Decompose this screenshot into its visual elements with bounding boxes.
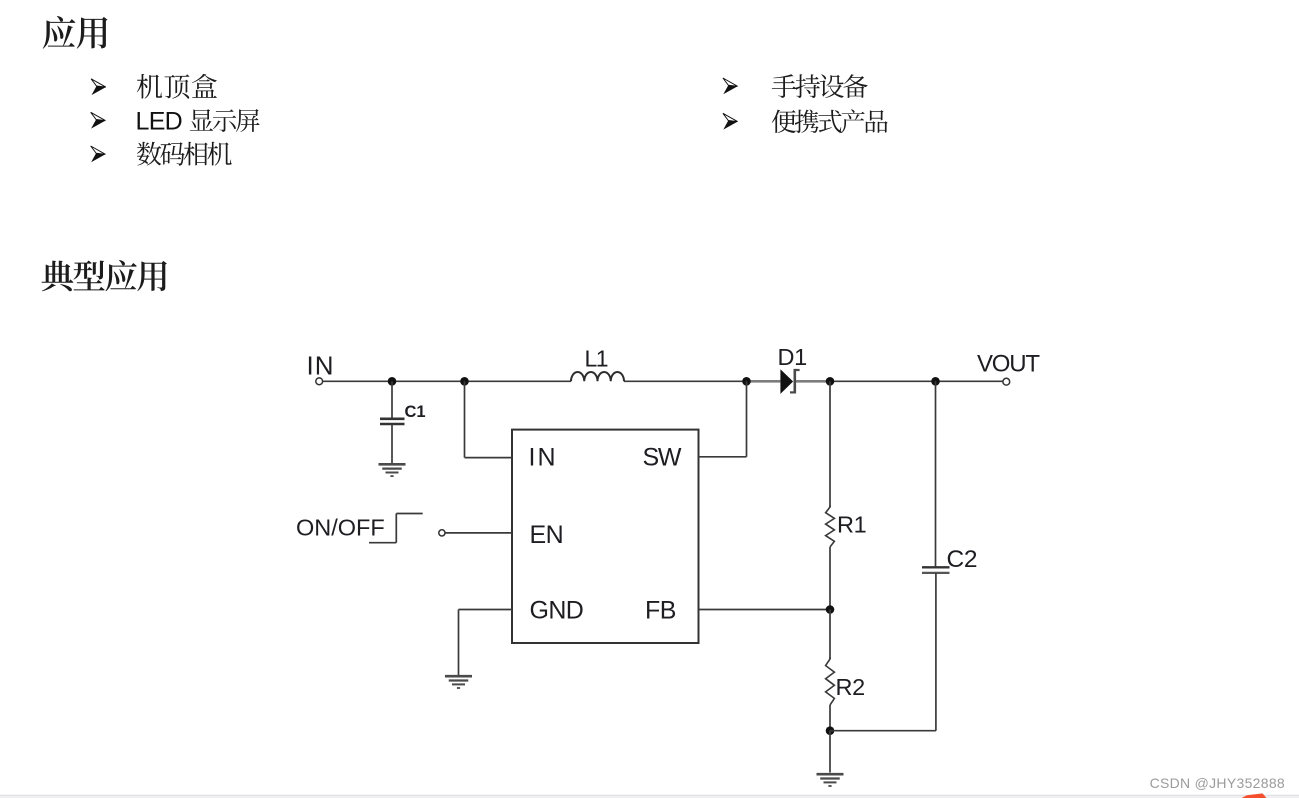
svg-text:IN: IN [307,351,335,381]
svg-text:VOUT: VOUT [977,351,1040,378]
svg-text:EN: EN [530,521,564,549]
svg-text:CSDN @JHY352888: CSDN @JHY352888 [1150,775,1285,791]
svg-text:SW: SW [643,444,682,472]
svg-text:GND: GND [530,597,584,625]
svg-text:R2: R2 [836,674,865,700]
svg-text:L1: L1 [585,345,608,371]
svg-text:C2: C2 [947,546,978,573]
svg-text:FB: FB [645,597,676,625]
svg-text:R1: R1 [837,512,866,538]
svg-text:D1: D1 [778,344,807,370]
svg-text:IN: IN [529,444,558,472]
svg-text:ON/OFF: ON/OFF [296,514,385,540]
svg-text:C1: C1 [405,403,426,421]
svg-text:LED: LED [136,108,183,136]
